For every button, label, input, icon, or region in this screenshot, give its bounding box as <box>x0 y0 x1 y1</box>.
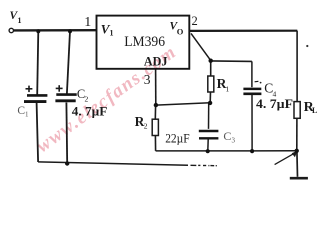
svg-text:4. 7µF: 4. 7µF <box>72 105 108 119</box>
svg-text:LM396: LM396 <box>124 34 165 50</box>
svg-text:O: O <box>177 27 184 37</box>
svg-text:4. 7µF: 4. 7µF <box>256 97 293 111</box>
svg-text:22µF: 22µF <box>165 132 190 146</box>
svg-text:2: 2 <box>192 14 198 28</box>
svg-text:C: C <box>223 129 231 143</box>
svg-text:3: 3 <box>144 72 151 87</box>
svg-text:1: 1 <box>226 85 230 94</box>
svg-text:1: 1 <box>84 15 91 30</box>
svg-text:2: 2 <box>85 95 89 104</box>
svg-text:2: 2 <box>144 122 148 131</box>
svg-text:1: 1 <box>110 29 114 38</box>
svg-text:1: 1 <box>18 16 22 25</box>
svg-text:3: 3 <box>232 137 236 145</box>
svg-text:L: L <box>312 106 317 115</box>
svg-text:ADJ: ADJ <box>144 54 168 69</box>
svg-text:1: 1 <box>25 111 29 119</box>
